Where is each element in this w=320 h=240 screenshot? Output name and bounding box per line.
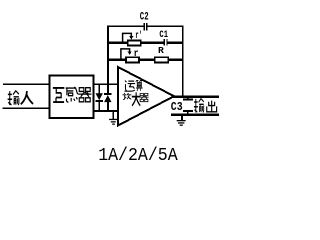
svg-text:r': r' bbox=[135, 30, 142, 42]
resistor r' tap arrow bbox=[123, 33, 134, 42]
resistor r tap arrow bbox=[121, 49, 132, 60]
svg-text:C3: C3 bbox=[171, 100, 183, 114]
wire input top bbox=[3, 83, 50, 85]
wire transformer to opamp bottom bbox=[94, 110, 120, 112]
wire input bottom bbox=[3, 107, 51, 109]
svg-text:r: r bbox=[134, 49, 139, 60]
wire top branch right of C2 bbox=[146, 25, 183, 27]
resistor r (variable) body bbox=[126, 57, 139, 62]
capacitor C1 bbox=[164, 39, 168, 46]
diode D2 (right, cathode up) bbox=[104, 85, 111, 111]
wire top branch left of C2 bbox=[107, 25, 143, 27]
wire bottom branch left of r bbox=[107, 59, 126, 61]
wire bottom branch right of R bbox=[168, 59, 182, 61]
wire feedback right vertical bbox=[182, 26, 184, 97]
resistor R body bbox=[155, 57, 168, 62]
wire feedback left vertical bbox=[107, 26, 109, 84]
svg-text:1A/2A/5A: 1A/2A/5A bbox=[98, 145, 178, 164]
op-amp label 运算 bbox=[125, 80, 143, 91]
svg-text:C2: C2 bbox=[140, 12, 149, 24]
svg-text:C1: C1 bbox=[159, 30, 168, 41]
capacitor C3 top plate bbox=[183, 97, 193, 101]
diode D1 (left, cathode down) bbox=[96, 85, 103, 111]
op-amp U1 triangle bbox=[118, 67, 174, 126]
capacitor C3 bottom plate bbox=[183, 110, 193, 114]
ground output bbox=[177, 115, 186, 126]
wire output bottom bbox=[171, 114, 219, 116]
resistor r' (variable) body bbox=[128, 40, 141, 45]
wire bottom branch r to R bbox=[140, 59, 155, 61]
node 输出 output label bbox=[194, 99, 217, 113]
capacitor C2 bbox=[143, 23, 147, 30]
wire transformer to opamp top bbox=[94, 83, 120, 85]
op-amp label 放大器 bbox=[122, 92, 148, 105]
svg-text:R: R bbox=[158, 45, 164, 56]
node 输入 input label bbox=[8, 91, 33, 105]
transformer label 互感器 bbox=[53, 87, 92, 102]
wire op-amp output bbox=[173, 96, 219, 98]
transformer T1 互感器 box bbox=[50, 75, 94, 118]
wire middle branch r' to C1 bbox=[141, 42, 164, 44]
ground under diodes bbox=[109, 111, 117, 125]
wire middle branch right of C1 bbox=[167, 42, 183, 44]
wire middle branch left of r' bbox=[107, 42, 128, 44]
